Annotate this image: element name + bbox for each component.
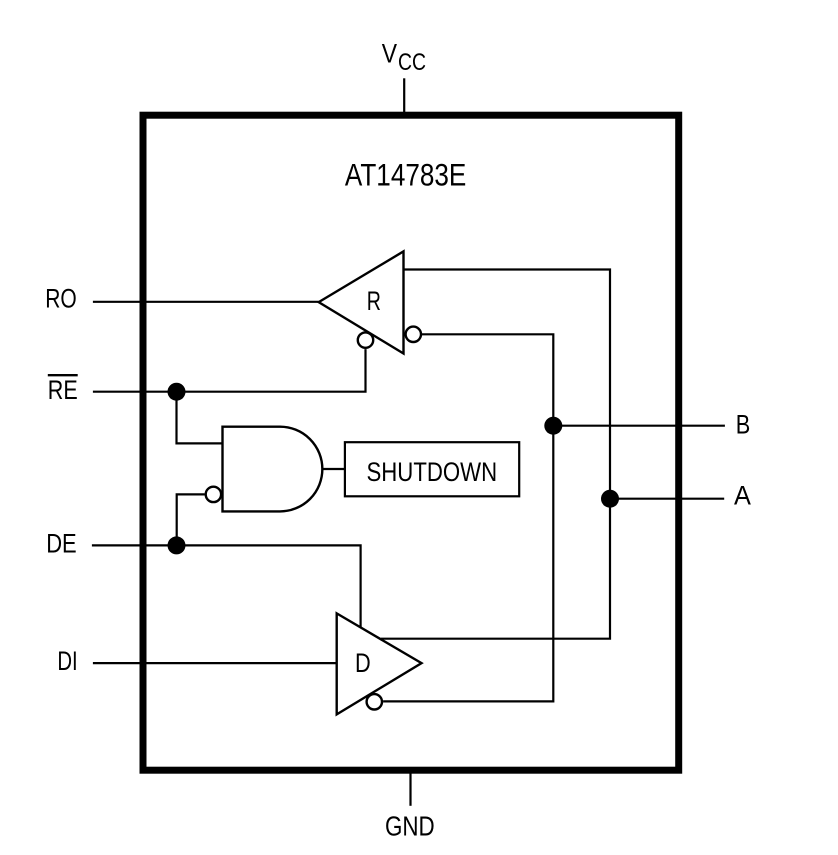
- IC outline box U1: [143, 115, 679, 770]
- wire AND lower input to DE node: [177, 494, 205, 545]
- svg-text:DE: DE: [46, 529, 77, 559]
- wire receiver bubble to B bus: [422, 334, 554, 425]
- wire driver bubble to B bus: [383, 428, 553, 701]
- wire DE to driver enable: [92, 545, 361, 627]
- svg-text:D: D: [355, 648, 371, 678]
- junction dot DE node: [168, 536, 186, 554]
- junction dot node A: [601, 490, 619, 508]
- driver D triangle: [337, 613, 422, 714]
- junction dot node B: [544, 417, 562, 435]
- wire driver output Y to A bus: [381, 500, 610, 639]
- AND gate shutdown logic: [223, 427, 323, 512]
- wire DI to driver input: [93, 662, 337, 664]
- SHUTDOWN box: [345, 442, 519, 496]
- svg-text:RE: RE: [48, 375, 78, 405]
- bubble driver inverting output: [367, 694, 382, 709]
- pin label RE with overline: [48, 375, 78, 405]
- power pin VCC wire: [403, 78, 405, 113]
- svg-text:SHUTDOWN: SHUTDOWN: [367, 456, 498, 487]
- wire RE node to AND gate upper input: [177, 392, 223, 444]
- wire receiver input A: right edge to vertical bus: [404, 270, 611, 498]
- wire receiver enable down to RE net: [93, 349, 366, 392]
- power label VCC: [382, 39, 426, 77]
- svg-text:RO: RO: [45, 284, 76, 314]
- svg-text:R: R: [367, 286, 381, 316]
- wire RO to receiver apex: [93, 301, 319, 303]
- ground pin GND wire: [409, 772, 411, 806]
- svg-text:DI: DI: [57, 646, 77, 676]
- junction dot RE node: [168, 383, 186, 401]
- wire AND output to SHUTDOWN box: [322, 468, 345, 470]
- svg-text:GND: GND: [385, 810, 435, 841]
- receiver R triangle: [319, 251, 404, 353]
- svg-text:A: A: [734, 481, 751, 511]
- wire pin A: [610, 498, 724, 500]
- svg-text:V: V: [382, 39, 398, 69]
- bubble AND gate lower input: [206, 487, 221, 502]
- wire pin B: [553, 425, 725, 427]
- svg-text:B: B: [736, 410, 751, 440]
- bubble receiver inverting input: [406, 327, 421, 342]
- svg-text:AT14783E: AT14783E: [345, 157, 466, 192]
- bubble receiver enable: [358, 332, 373, 347]
- svg-text:CC: CC: [398, 50, 426, 76]
